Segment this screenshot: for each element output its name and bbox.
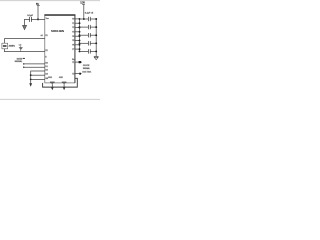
- IC U1 body: [44, 15, 75, 83]
- svg-text:Y6: Y6: [72, 45, 74, 47]
- supply +3.3V rail bar: [82, 3, 85, 6]
- arrowhead into pin D1 wire: [23, 66, 25, 68]
- right ground rail: [95, 19, 97, 56]
- wire D0: [25, 63, 45, 65]
- wire 5V vertical: [37, 6, 39, 20]
- output pin stub OUT2: [75, 73, 80, 75]
- svg-text:T1: T1: [72, 62, 74, 64]
- output pin stub OUT1: [75, 61, 79, 63]
- rail junction dots: [95, 18, 97, 52]
- svg-text:SIGNAL: SIGNAL: [83, 67, 90, 70]
- wire D3: [31, 74, 45, 76]
- page top border: [0, 0, 100, 2]
- svg-text:Y1: Y1: [72, 23, 74, 25]
- arrowhead into pin D0 wire: [23, 63, 25, 65]
- ground arrow left bus: [29, 83, 32, 87]
- svg-text:SIGNAL: SIGNAL: [15, 60, 23, 63]
- svg-text:Rx: Rx: [72, 59, 74, 61]
- output arrow OUT1: [79, 61, 82, 63]
- node junction GND pin: [30, 79, 32, 81]
- capacitor C1 plates: [29, 17, 32, 22]
- svg-text:Y0: Y0: [72, 19, 74, 21]
- svg-text:D2: D2: [45, 70, 47, 72]
- svg-text:Y4: Y4: [72, 36, 74, 38]
- svg-text:E: E: [45, 57, 47, 59]
- page bottom border: [0, 98, 100, 101]
- node junction at VCC pin: [37, 18, 39, 20]
- node junction 3.3V: [83, 18, 85, 20]
- svg-text:Y3: Y3: [72, 32, 74, 34]
- wire D1: [25, 66, 45, 68]
- bottom ground stem 2: [63, 84, 65, 88]
- svg-text:X2: X2: [45, 50, 47, 52]
- svg-text:1645 TA01: 1645 TA01: [82, 71, 91, 74]
- right pin stubs and bus: [75, 19, 80, 52]
- capacitor plates column: [88, 17, 90, 54]
- svg-text:val: val: [19, 45, 22, 47]
- output arrow OUT2: [79, 73, 81, 75]
- svg-text:20MHz: 20MHz: [9, 45, 15, 47]
- svg-text:0.1µF ×5: 0.1µF ×5: [85, 12, 94, 15]
- svg-text:D3: D3: [45, 74, 47, 76]
- wire 3.3V vertical: [83, 5, 85, 20]
- svg-text:X1: X1: [45, 35, 47, 37]
- svg-text:Y5: Y5: [72, 40, 74, 42]
- ground arrow at C1: [23, 25, 27, 29]
- wire C1 left down: [24, 19, 26, 25]
- arrow dash after signal label: [23, 58, 25, 59]
- wire crystal top to X1 pin: [5, 39, 45, 44]
- svg-text:MX614BN: MX614BN: [51, 29, 64, 33]
- bottom ground arrow 2: [63, 87, 66, 90]
- right pin labels: [72, 19, 74, 51]
- bottom ground stem 1: [51, 84, 53, 88]
- svg-text:Vcc: Vcc: [46, 18, 49, 20]
- ground symbol right rail: [94, 56, 99, 60]
- svg-text:CLOCK: CLOCK: [83, 65, 90, 67]
- bus junction dots: [79, 18, 81, 52]
- wire crystal bottom to X2 pin: [5, 49, 45, 52]
- svg-text:D1: D1: [45, 66, 47, 68]
- svg-text:Y7: Y7: [72, 49, 74, 51]
- supply +5V rail bar: [37, 4, 40, 7]
- wire D2 with corner down: [31, 71, 45, 85]
- svg-text:GND: GND: [48, 77, 53, 79]
- crystal Y1 body: [2, 43, 8, 49]
- svg-text:T2: T2: [72, 73, 74, 75]
- svg-text:x1: x1: [41, 35, 44, 37]
- ground tap on X2 wire: [19, 45, 23, 52]
- svg-text:Y2: Y2: [72, 27, 74, 29]
- decoupling capacitor rows: [80, 19, 97, 51]
- node junction D3: [30, 74, 32, 76]
- wire VCC horizontal: [24, 18, 44, 20]
- wire GND pin: [31, 78, 45, 80]
- bottom ground bar 2: [62, 82, 67, 83]
- ground rail bottom: [43, 78, 78, 87]
- bottom ground bar 1: [50, 82, 55, 83]
- bottom ground arrow 1: [51, 87, 54, 90]
- svg-text:GND: GND: [59, 77, 64, 79]
- svg-text:D0: D0: [45, 62, 47, 64]
